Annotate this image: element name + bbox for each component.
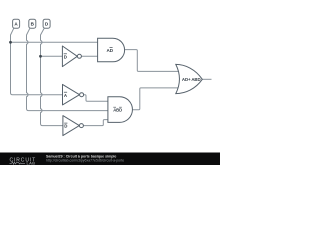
- svg-text:ABD: ABD: [113, 107, 122, 112]
- wire net A horizontal to AND1: [11, 41, 98, 43]
- footer bar: [0, 153, 220, 166]
- input terminal D: [43, 19, 50, 28]
- AND gate U4 (AD): [98, 38, 125, 62]
- wire OR output: [202, 78, 211, 80]
- svg-text:AD+ ABD: AD+ ABD: [182, 77, 201, 82]
- wire net B horizontal to AND2: [39, 110, 108, 112]
- svg-text:http://circuitlab.com/c6py6xa7: http://circuitlab.com/c6py6xa77e5d6/circ…: [46, 159, 124, 163]
- wire inverter U3 output to AND2 input3: [84, 120, 108, 126]
- wire net A vertical: [11, 28, 63, 95]
- node D junction dot: [39, 55, 42, 58]
- input terminal A: [13, 19, 20, 28]
- svg-text:AD: AD: [107, 48, 114, 53]
- input terminal B: [29, 19, 36, 28]
- AND gate U5 (ABD): [108, 97, 133, 123]
- CircuitLab logo: [10, 157, 37, 165]
- wire AND1 output to OR input1: [125, 50, 180, 72]
- wire inverter U2 output to AND2 input1: [84, 95, 108, 102]
- wire D tap to inverter U1: [41, 55, 63, 57]
- wire inverter U1 output to AND1: [81, 55, 97, 57]
- svg-text:D: D: [64, 54, 67, 59]
- inverter U3 (NOT D, bottom): [63, 116, 84, 136]
- inverter U2 (NOT A, middle): [63, 84, 84, 105]
- svg-text:D: D: [64, 124, 67, 129]
- OR gate U6: [176, 64, 203, 93]
- wire AND2 output to OR input2: [132, 88, 180, 110]
- svg-text:LAB: LAB: [27, 161, 36, 165]
- wire net B vertical: [27, 28, 39, 110]
- node A junction dot: [9, 41, 12, 44]
- inverter U1 (NOT D, top): [62, 46, 81, 67]
- wire net D vertical: [41, 28, 63, 125]
